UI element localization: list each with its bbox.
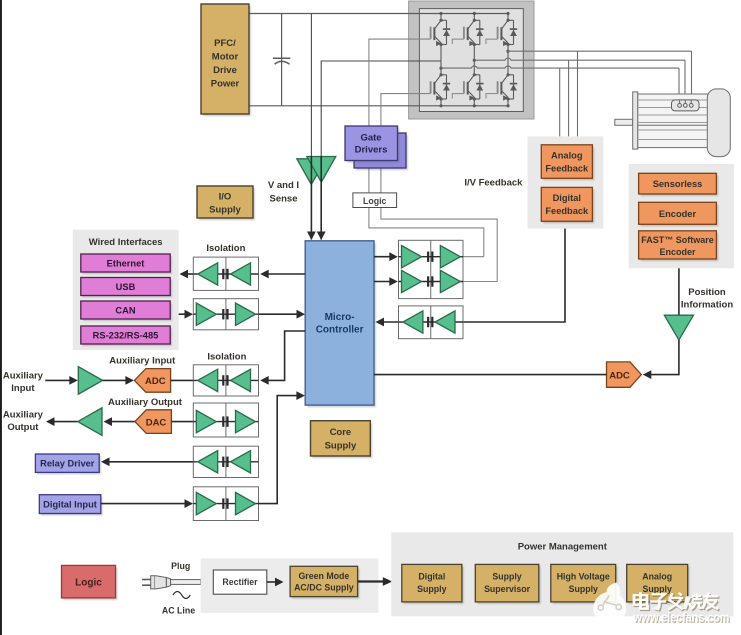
- svg-text:Auxiliary: Auxiliary: [3, 371, 44, 382]
- inverter power module inner block: [419, 9, 523, 112]
- block: CAN: [83, 303, 172, 321]
- container: position sensing group: [629, 164, 734, 268]
- svg-text:Green ModeAC/DC Supply: Green ModeAC/DC Supply: [294, 571, 354, 593]
- svg-text:Auxiliary Output: Auxiliary Output: [108, 397, 183, 408]
- svg-text:Encoder: Encoder: [659, 209, 697, 219]
- svg-text:Ethernet: Ethernet: [107, 258, 145, 268]
- block: High Voltage Supply: [553, 567, 618, 605]
- svg-text:ADC: ADC: [609, 370, 630, 381]
- motor: terminal box: [672, 100, 700, 111]
- wire: feedback isolation into MCU: [377, 321, 399, 323]
- icon: AC plug: [142, 576, 201, 589]
- amplifier: position information: [664, 315, 693, 340]
- block: Supply Supervisor: [477, 567, 541, 605]
- block: USB: [83, 280, 172, 298]
- transistor Q6 (bottom IGBT + diode): [498, 73, 518, 100]
- wire: gate stub bottom row: [486, 94, 498, 99]
- svg-text:Power Management: Power Management: [518, 542, 608, 553]
- wire: current sense tap 3 down to feedback: [577, 51, 579, 136]
- wire: gate stub top row: [452, 39, 464, 44]
- wire: wired interfaces to isolation: [179, 313, 192, 315]
- block: Analog Supply: [629, 567, 690, 605]
- svg-text:Isolation: Isolation: [207, 352, 246, 363]
- svg-text:CAN: CAN: [115, 305, 135, 315]
- svg-text:RS-232/RS-485: RS-232/RS-485: [93, 330, 159, 340]
- svg-text:Relay Driver: Relay Driver: [40, 459, 95, 469]
- amplifier: V sense (back triangle): [297, 159, 326, 185]
- left page border: [0, 0, 2, 635]
- wire: ADC to MCU: [374, 374, 607, 376]
- block: Digital Input: [41, 497, 103, 516]
- svg-text:ADC: ADC: [145, 376, 166, 387]
- wire: isolation to MCU (CAN row): [259, 313, 304, 315]
- block: Rectifier: [213, 570, 266, 594]
- svg-text:Logic: Logic: [363, 196, 387, 206]
- block: Green Mode AC/DC Supply: [292, 569, 360, 599]
- wire: phase leads into terminal box: [679, 100, 681, 103]
- wire: bottom-row gate drive (gate drivers to inverter): [381, 94, 497, 282]
- wire: isolation to DAC: [171, 421, 193, 423]
- wire: ADC to isolation: [171, 379, 194, 381]
- motor: rear end cap: [707, 89, 730, 157]
- wire: current sense tap 2 down to feedback: [568, 60, 570, 136]
- block: Logic (gate logic): [353, 193, 397, 208]
- block: Micro-Controller: [307, 243, 376, 407]
- block: Gate Drivers: [347, 128, 400, 163]
- isolation block: relay driver: [193, 446, 258, 477]
- wire: digital feedback to isolation: [463, 229, 565, 322]
- svg-text:Plug: Plug: [171, 561, 190, 571]
- wire: V sense from DC bus down: [310, 14, 312, 157]
- wire: I sense into MCU: [320, 156, 322, 240]
- isolation block: digital feedback to MCU: [399, 306, 464, 339]
- block: Relay Driver: [37, 456, 101, 474]
- svg-text:Wired Interfaces: Wired Interfaces: [89, 237, 163, 248]
- svg-text:Input: Input: [11, 383, 35, 394]
- svg-text:Auxiliary Input: Auxiliary Input: [109, 356, 176, 367]
- svg-text:I/V Feedback: I/V Feedback: [464, 177, 523, 188]
- svg-text:www.elecfans.com: www.elecfans.com: [633, 611, 730, 625]
- wire: encoder group down to amplifier: [678, 268, 680, 315]
- block: Core Supply: [313, 423, 373, 458]
- block: Gate Drivers (back copy): [356, 135, 408, 170]
- block: Ethernet: [83, 256, 172, 274]
- svg-text:Rectifier: Rectifier: [222, 577, 258, 587]
- block: Analog Feedback: [543, 147, 594, 181]
- isolation block: digital input: [193, 487, 258, 521]
- container: Power Management group: [391, 532, 733, 616]
- transistor Q4 (bottom IGBT + diode): [431, 73, 451, 100]
- wire: isolation to wired interfaces: [181, 273, 193, 275]
- svg-text:Digital Input: Digital Input: [43, 500, 97, 510]
- isolation block: auxiliary output: [193, 403, 258, 437]
- svg-text:Isolation: Isolation: [206, 243, 245, 254]
- wire: amplifier to ADC: [647, 340, 679, 375]
- block: Digital Feedback: [543, 190, 594, 224]
- wire: gate stub bottom row: [452, 94, 464, 99]
- block: PFC/Motor Drive Power: [203, 6, 251, 116]
- block: Digital Supply: [404, 567, 464, 605]
- wire: amplifier to auxiliary output: [48, 421, 78, 423]
- svg-text:V and I: V and I: [268, 180, 299, 191]
- wire: gate-drive isolation outputs to gray risers: [463, 256, 484, 258]
- svg-text:Logic: Logic: [75, 577, 102, 588]
- wire: inverter column 1 verticals: [440, 14, 442, 21]
- svg-text:Position: Position: [688, 287, 726, 298]
- transistor Q2 (top IGBT + diode): [464, 19, 484, 46]
- block: Logic (red): [64, 568, 118, 601]
- transistor Q1 (top IGBT + diode): [431, 19, 451, 46]
- wire: DC bus top from PFC to inverter: [249, 13, 508, 15]
- isolation block: from wired interfaces: [193, 299, 258, 330]
- block: RS-232/RS-485: [83, 328, 172, 346]
- wire: MCU PWM to gate-drive isolation row 1: [374, 256, 396, 258]
- converter: ADC (position): [607, 362, 642, 387]
- watermark: elecfans logo: [593, 582, 626, 624]
- svg-text:Output: Output: [7, 422, 39, 433]
- watermark: chinese characters: [635, 594, 719, 611]
- wire: DC bus bottom from PFC to inverter: [249, 105, 508, 107]
- converter: ADC (auxiliary input): [134, 369, 170, 393]
- amplifier: auxiliary input: [78, 367, 102, 395]
- transistor Q5 (bottom IGBT + diode): [464, 73, 484, 100]
- inverter power module outer block: [409, 1, 534, 119]
- wire: rectifier to green mode supply: [267, 581, 282, 583]
- motor: shaft: [615, 119, 633, 125]
- icon: AC sine wave: [173, 592, 190, 599]
- wire: digital-input isolation up into MCU: [259, 396, 304, 504]
- wire: auxiliary input to amplifier: [45, 379, 76, 381]
- wire: MCU to isolation (ethernet row): [262, 273, 305, 275]
- block: Encoder: [641, 205, 719, 227]
- svg-text:Sensorless: Sensorless: [653, 179, 703, 189]
- container: rectifier/supply panel: [201, 558, 379, 613]
- wire: phase V output (from col2) to motor: [473, 59, 476, 62]
- wire: DAC to amplifier: [105, 421, 135, 423]
- motor: body with fins: [638, 94, 708, 148]
- capacitor C1 (DC link): [281, 14, 283, 106]
- wire: V sense into MCU: [310, 156, 312, 240]
- wire: inverter column 2 verticals: [473, 14, 475, 21]
- wire: phase W output (from col3) to motor: [506, 50, 509, 53]
- wire: digital input to isolation: [101, 503, 192, 505]
- wire: MCU to aux-input isolation: [262, 331, 305, 380]
- isolation block: auxiliary input: [193, 365, 258, 396]
- wire: gate stub top row: [486, 39, 498, 44]
- wire: current sense tap 1 down to feedback: [559, 68, 561, 136]
- isolation block: to wired interfaces: [193, 257, 258, 290]
- svg-text:Sense: Sense: [270, 194, 298, 205]
- wire: isolation to relay driver: [103, 461, 194, 463]
- wire: inverter column 3 verticals: [507, 14, 509, 21]
- wire: MCU PWM to gate-drive isolation row 2: [374, 281, 396, 283]
- container: feedback group: [528, 136, 604, 228]
- converter: DAC (auxiliary output): [135, 410, 172, 434]
- wire: I sense from phase node down: [321, 61, 441, 156]
- svg-text:USB: USB: [116, 282, 136, 292]
- block: FAST Software Encoder: [641, 233, 719, 261]
- block: Sensorless: [641, 176, 719, 197]
- wire: amplifier to ADC: [103, 379, 132, 381]
- transistor Q3 (top IGBT + diode): [498, 19, 518, 46]
- svg-text:DAC: DAC: [146, 417, 167, 428]
- amplifier: I sense (front triangle): [307, 157, 336, 183]
- container: Wired Interfaces group: [73, 230, 179, 350]
- svg-text:AC Line: AC Line: [162, 606, 195, 616]
- svg-text:Information: Information: [681, 300, 733, 311]
- wire: top-row gate drive (gate drivers to inverter): [369, 39, 484, 257]
- wire: phase U output (from col1) to motor: [439, 67, 442, 70]
- isolation block: PWM to gate drivers: [399, 240, 464, 298]
- wire: supply to power management: [358, 580, 386, 582]
- block: I/O Supply: [199, 188, 255, 220]
- svg-text:Auxiliary: Auxiliary: [3, 410, 44, 421]
- amplifier: auxiliary output: [78, 408, 102, 436]
- motor: front flange: [633, 92, 638, 149]
